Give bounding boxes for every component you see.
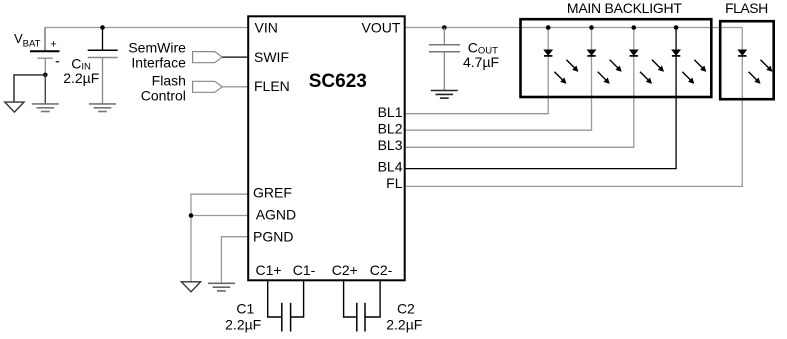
triangle ground battery <box>5 102 24 112</box>
label - <box>56 61 60 63</box>
svg-text:SC623: SC623 <box>309 71 367 92</box>
svg-text:C2-: C2- <box>370 262 393 278</box>
wire AGND <box>191 215 248 217</box>
svg-text:Interface: Interface <box>131 55 186 71</box>
svg-text:BL4: BL4 <box>378 158 403 174</box>
wire VBAT rail to VIN <box>45 27 248 29</box>
earth ground battery <box>32 104 59 112</box>
svg-text:C1: C1 <box>236 301 254 317</box>
svg-text:AGND: AGND <box>256 206 296 222</box>
svg-text:Flash: Flash <box>152 72 186 88</box>
junction dot LED4 <box>674 25 679 30</box>
C1 plate right <box>290 303 292 332</box>
junction dot COUT <box>442 25 447 30</box>
capacitor C1 <box>268 281 304 331</box>
wire flash LED drop <box>741 28 743 51</box>
wire LED2 anode <box>591 28 593 51</box>
junction dot CIN <box>100 25 105 30</box>
box MAIN BACKLIGHT <box>521 19 712 97</box>
wire LED1 anode <box>547 28 549 51</box>
wire FL <box>406 56 743 187</box>
wire BL2 <box>406 56 592 130</box>
capacitor COUT <box>429 25 499 98</box>
LED D4 <box>672 50 706 84</box>
COUT plate bottom <box>429 51 460 53</box>
battery VBAT <box>5 28 60 113</box>
svg-text:2.2µF: 2.2µF <box>386 316 422 332</box>
svg-text:2.2µF: 2.2µF <box>225 316 261 332</box>
CIN plate top <box>88 49 118 51</box>
svg-text:+: + <box>50 39 56 51</box>
wire battery to earth ground <box>44 75 46 104</box>
wire BL3 <box>406 56 634 148</box>
earth ground CIN <box>89 104 116 112</box>
wire COUT top <box>443 28 445 45</box>
svg-text:2.2µF: 2.2µF <box>63 70 99 86</box>
LED D3 <box>630 50 664 84</box>
capacitor CIN <box>63 25 117 111</box>
svg-text:BL3: BL3 <box>378 137 403 153</box>
svg-text:SWIF: SWIF <box>254 49 289 65</box>
wire BL4 <box>406 56 677 169</box>
triangle ground GREF <box>181 282 200 292</box>
wire VOUT rail <box>406 27 743 29</box>
wire C2- <box>365 281 380 317</box>
earth ground PGND <box>208 283 235 291</box>
svg-text:C2+: C2+ <box>332 262 358 278</box>
svg-text:C2: C2 <box>397 301 415 317</box>
wire COUT bottom <box>443 52 445 90</box>
wire CIN top <box>102 28 104 51</box>
wire C2+ <box>344 281 357 317</box>
wire C1+ <box>268 281 282 317</box>
earth ground COUT <box>431 91 458 99</box>
connector SemWire <box>128 40 247 71</box>
svg-text:4.7µF: 4.7µF <box>463 54 499 70</box>
box FLASH <box>720 21 774 99</box>
COUT plate top <box>429 44 460 46</box>
svg-text:SemWire: SemWire <box>128 40 186 56</box>
svg-text:VOUT: VOUT <box>362 19 401 35</box>
wire battery bottom <box>44 58 46 75</box>
svg-text:PGND: PGND <box>253 228 293 244</box>
wire FLEN <box>222 86 247 88</box>
C2 plate right <box>364 303 366 332</box>
wire CIN bottom <box>102 58 104 104</box>
wire SWIF <box>222 56 247 58</box>
junction dot LED2 <box>589 25 594 30</box>
svg-text:BL2: BL2 <box>378 120 403 136</box>
junction dot LED3 <box>632 25 637 30</box>
svg-text:MAIN BACKLIGHT: MAIN BACKLIGHT <box>567 0 682 16</box>
junction dot battery <box>43 73 48 78</box>
junction dot AGND <box>189 213 194 218</box>
wire LED3 anode <box>633 28 635 51</box>
svg-text:BL1: BL1 <box>378 104 403 120</box>
CIN plate bottom <box>88 57 118 59</box>
C2 plate left <box>356 303 358 332</box>
wire battery top <box>44 28 46 52</box>
svg-text:FL: FL <box>386 175 403 191</box>
C1 plate left <box>281 303 283 332</box>
svg-text:C1+: C1+ <box>255 262 281 278</box>
svg-text:C1-: C1- <box>293 262 316 278</box>
connector Flash Control <box>141 72 248 103</box>
LED D1 <box>544 50 578 84</box>
svg-text:VIN: VIN <box>255 19 278 35</box>
wire to triangle ground <box>14 75 45 102</box>
battery plate - <box>37 57 53 59</box>
battery plate + <box>30 50 60 52</box>
junction dot LED1 <box>546 25 551 30</box>
svg-text:FLEN: FLEN <box>254 78 290 94</box>
capacitor C2 <box>344 281 381 331</box>
svg-text:FLASH: FLASH <box>725 0 768 16</box>
svg-text:Control: Control <box>141 87 186 103</box>
wire C1- <box>291 281 304 317</box>
wire GREF <box>191 194 248 282</box>
wire BL1 <box>406 56 549 114</box>
IC U1 SC623 <box>248 16 405 280</box>
wire PGND <box>221 237 247 284</box>
wire LED4 anode <box>675 28 677 51</box>
LED flash <box>738 50 772 84</box>
LED D2 <box>587 50 621 84</box>
svg-text:GREF: GREF <box>253 185 292 201</box>
